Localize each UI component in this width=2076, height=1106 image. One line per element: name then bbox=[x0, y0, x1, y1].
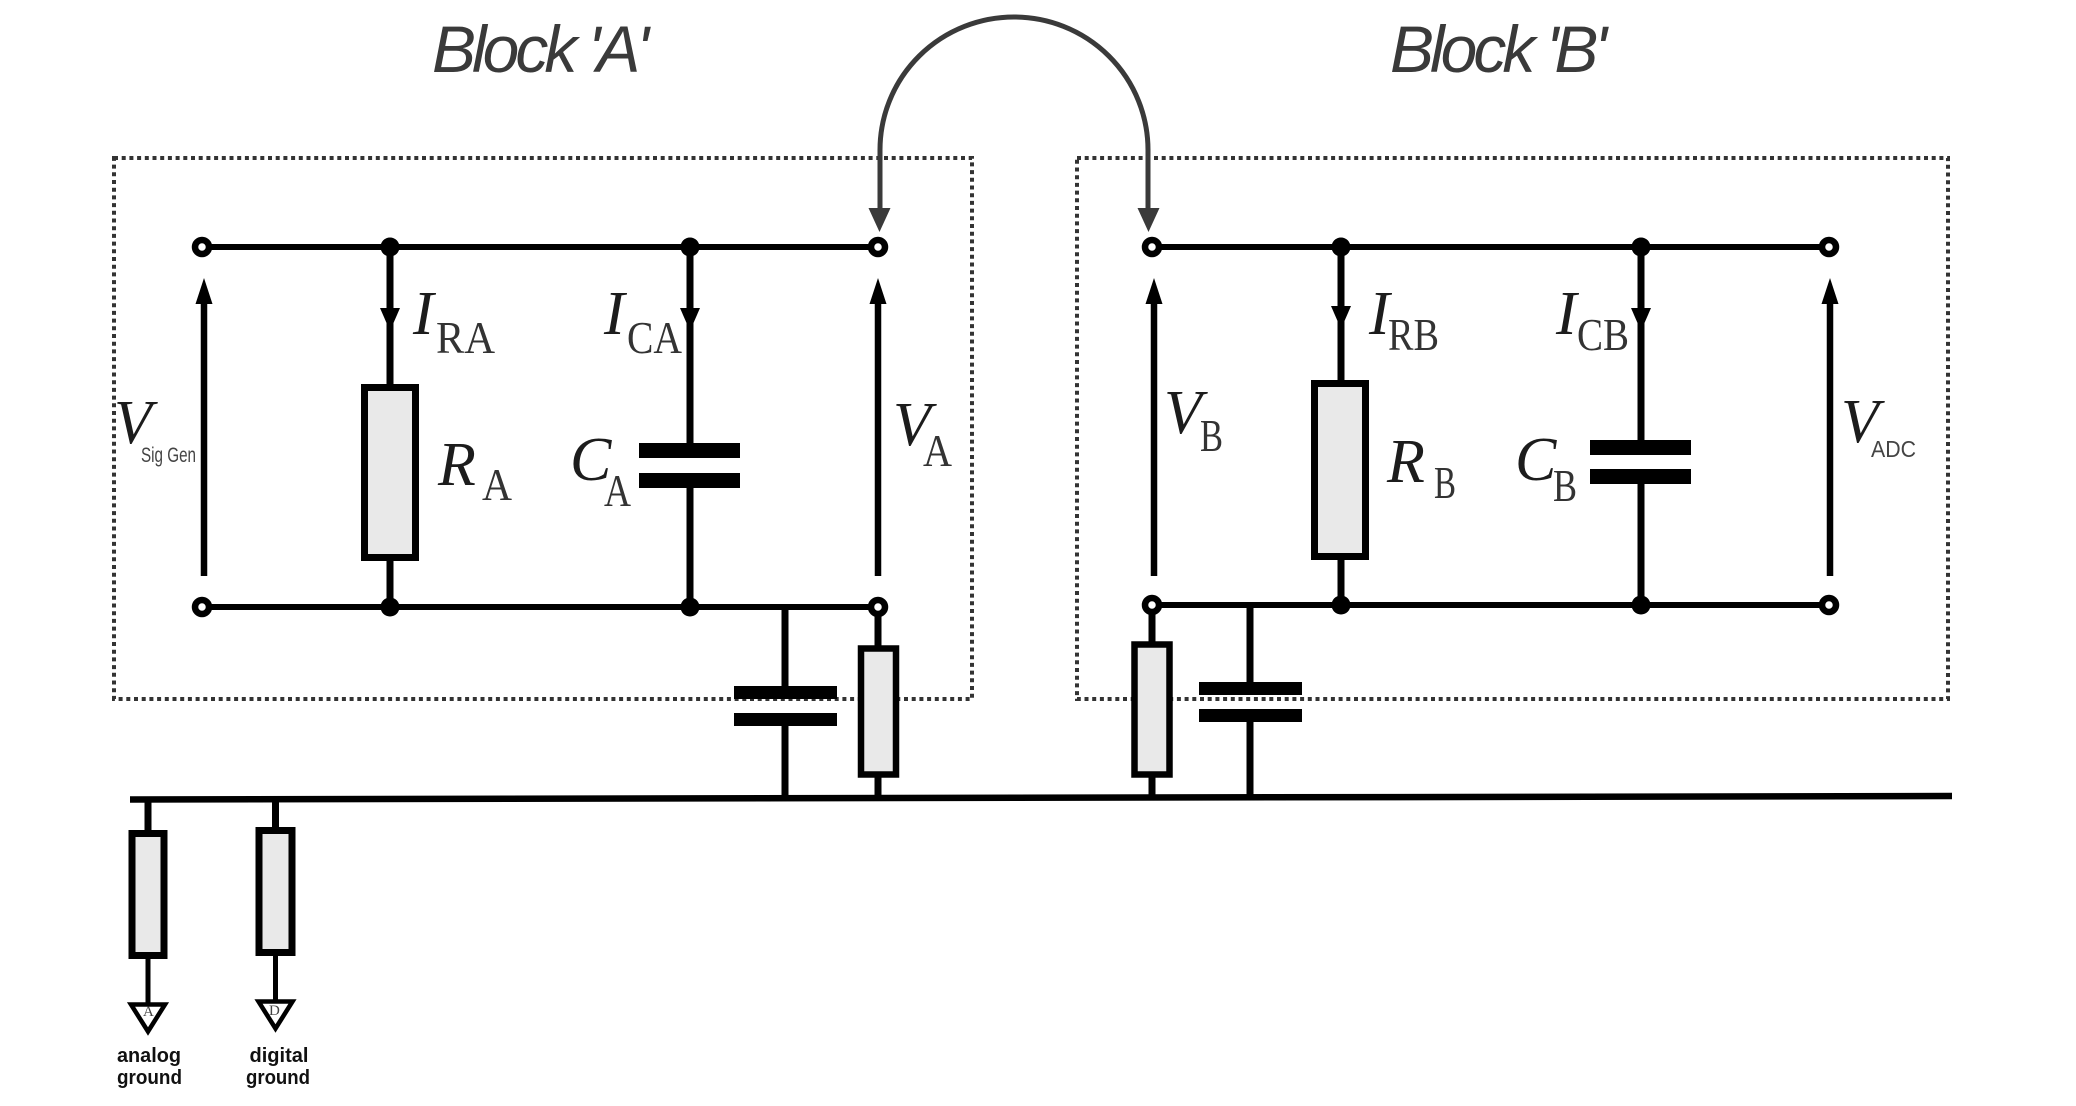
svg-text:A: A bbox=[604, 466, 631, 516]
svg-text:digital: digital bbox=[250, 1045, 309, 1067]
svg-text:B: B bbox=[1434, 458, 1456, 508]
svg-text:CB: CB bbox=[1577, 310, 1629, 360]
svg-text:ground: ground bbox=[117, 1067, 182, 1089]
svg-text:CA: CA bbox=[627, 313, 682, 363]
svg-text:D: D bbox=[269, 1003, 280, 1019]
svg-text:Block 'A': Block 'A' bbox=[432, 12, 651, 86]
svg-text:Block 'B': Block 'B' bbox=[1390, 12, 1609, 86]
svg-text:Sig Gen: Sig Gen bbox=[141, 444, 196, 467]
svg-text:R: R bbox=[1386, 428, 1425, 496]
svg-text:analog: analog bbox=[117, 1045, 181, 1067]
svg-text:RA: RA bbox=[436, 313, 495, 363]
svg-text:R: R bbox=[437, 431, 476, 499]
svg-text:I: I bbox=[412, 280, 437, 348]
svg-text:I: I bbox=[603, 280, 628, 348]
svg-text:ADC: ADC bbox=[1871, 436, 1916, 462]
svg-text:A: A bbox=[143, 1004, 154, 1020]
svg-text:B: B bbox=[1553, 461, 1577, 511]
svg-text:RB: RB bbox=[1388, 310, 1439, 360]
svg-text:C: C bbox=[1515, 426, 1557, 494]
svg-text:B: B bbox=[1200, 411, 1223, 461]
svg-text:A: A bbox=[923, 426, 952, 476]
svg-text:A: A bbox=[482, 460, 512, 510]
svg-text:ground: ground bbox=[246, 1067, 310, 1089]
